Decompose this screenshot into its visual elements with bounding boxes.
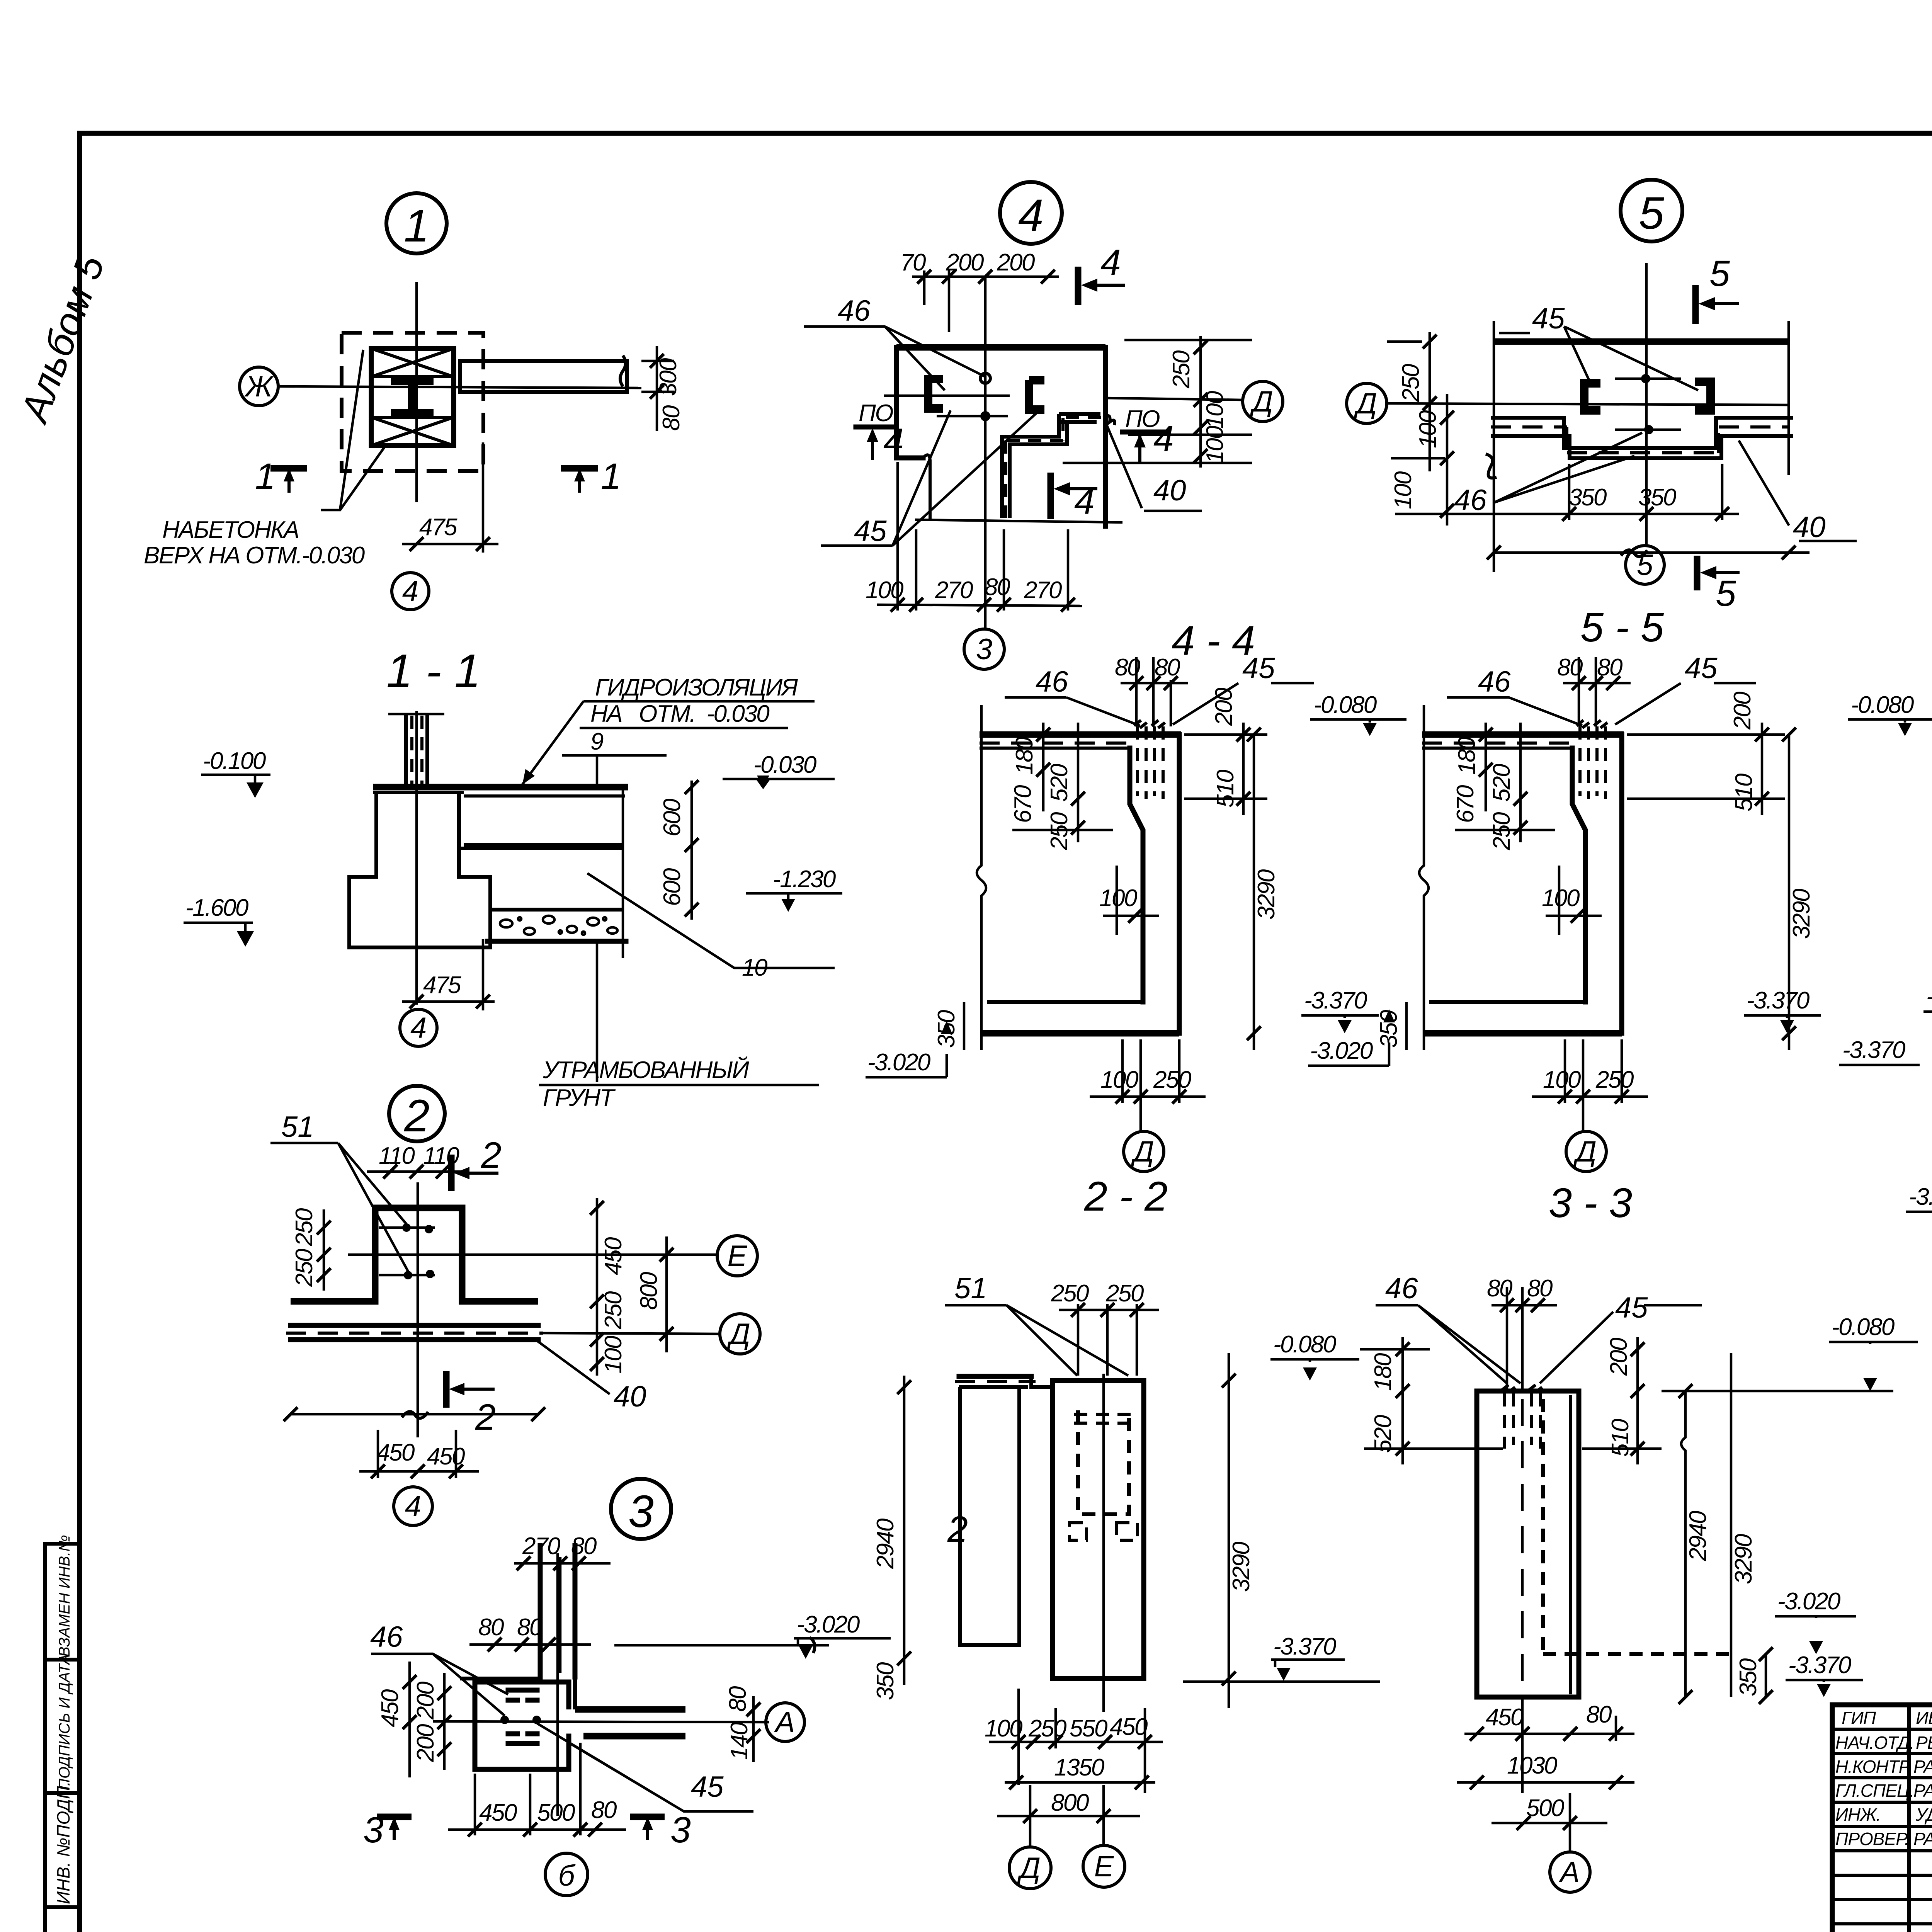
dashed top bolts [1504,1393,1541,1449]
svg-text:НАЧ.ОТД.: НАЧ.ОТД. [1835,1733,1914,1753]
svg-text:ВЕРХ НА ОТМ.-0.030: ВЕРХ НА ОТМ.-0.030 [144,542,365,569]
plan outline top [896,344,1105,351]
svg-text:4: 4 [1018,190,1044,241]
svg-text:НАБЕТОНКА: НАБЕТОНКА [162,517,299,543]
svg-text:УТРАМБОВАННЫЙ: УТРАМБОВАННЫЙ [543,1056,749,1083]
dims right 200 510 [1761,723,1764,815]
leader arrow to slab [522,701,583,784]
svg-text:450: 450 [427,1443,465,1470]
svg-text:Н.КОНТР.: Н.КОНТР. [1835,1757,1912,1777]
svg-text:-0.030: -0.030 [753,752,816,778]
svg-text:б: б [558,1859,576,1892]
svg-text:ГИДРОИЗОЛЯЦИЯ: ГИДРОИЗОЛЯЦИЯ [595,674,798,701]
svg-text:5: 5 [1637,549,1653,582]
svg-text:-0.080: -0.080 [1832,1314,1895,1340]
svg-text:100: 100 [1202,426,1228,464]
svg-text:100: 100 [1390,471,1417,509]
svg-text:250: 250 [600,1291,627,1330]
left C-channel [1584,383,1600,410]
svg-text:46: 46 [1036,665,1068,698]
dims 250 250 left [323,1209,325,1291]
center lines node3 [556,1553,559,1816]
stem inner line [373,791,464,794]
svg-text:-3.020: -3.020 [797,1611,860,1638]
svg-text:-3.370: -3.370 [1304,987,1367,1014]
axis circle 4 below [392,573,429,610]
svg-text:-3.020: -3.020 [1777,1588,1840,1615]
svg-text:2 - 2: 2 - 2 [1084,1173,1168,1219]
dim 3290 tall [1253,735,1255,1050]
svg-text:ИНЖ.: ИНЖ. [1835,1804,1881,1825]
svg-text:3: 3 [363,1810,384,1850]
svg-text:2940: 2940 [872,1519,899,1569]
svg-text:Д: Д [1353,387,1377,420]
anchor bolts [402,1223,411,1232]
svg-text:510: 510 [1607,1419,1634,1457]
svg-text:РАШЕВСКИЙ: РАШЕВСКИЙ [1913,1780,1932,1801]
svg-text:-0.080: -0.080 [1926,983,1932,1010]
svg-text:2: 2 [404,1090,430,1141]
I-beam marks in pad [508,1690,537,1700]
svg-text:4: 4 [1153,418,1174,459]
left C-channel [928,379,943,408]
dims left rotated 180 670 520 250 [1042,723,1045,811]
svg-text:45: 45 [1242,652,1275,685]
svg-text:520: 520 [1370,1415,1396,1453]
center line of column [415,711,418,1005]
node circle 5 [1621,180,1682,241]
svg-text:3290: 3290 [1228,1542,1255,1592]
section flag 5 bottom [1694,556,1701,590]
svg-text:80: 80 [1487,1275,1512,1302]
right C-channel [1029,380,1044,410]
svg-text:51: 51 [954,1272,987,1305]
section mark 3 right [630,1814,665,1820]
left slab strip [959,1374,1031,1379]
svg-text:Д: Д [1130,1135,1154,1168]
svg-text:ИВАНОВА: ИВАНОВА [1916,1708,1932,1728]
svg-text:3: 3 [670,1810,691,1850]
pile rectangle [1053,1381,1144,1679]
signature table labels [1835,1708,1932,1849]
dashed works inside pile [1078,1410,1129,1514]
svg-text:250: 250 [1398,364,1424,402]
svg-text:ГРУНТ: ГРУНТ [543,1085,616,1111]
axis circle Е [1083,1845,1125,1887]
section mark 1 right [561,465,598,472]
dim 2940 [1681,1391,1685,1697]
svg-text:520: 520 [1046,764,1073,802]
svg-text:350: 350 [933,1010,960,1048]
svg-text:200: 200 [946,249,984,276]
left axis line with break [1419,705,1429,1050]
strip top line [291,1323,538,1328]
svg-text:100: 100 [600,1336,627,1374]
long bottom dim with break [1494,551,1810,554]
bolt hatch at top [1577,720,1607,728]
dims right 200 510 [1242,723,1245,815]
svg-text:100: 100 [1415,410,1441,448]
svg-text:450: 450 [1486,1704,1524,1731]
pile rectangle [1477,1391,1579,1697]
svg-text:3290: 3290 [1788,889,1815,939]
svg-text:2: 2 [947,1509,968,1550]
svg-text:180: 180 [1011,737,1038,775]
svg-text:450: 450 [479,1799,517,1826]
svg-text:ИНВ. №ПОДП.: ИНВ. №ПОДП. [53,1781,73,1904]
node circle 1 [386,193,447,253]
center line horizontal axis Ж [277,386,641,388]
svg-text:46: 46 [1385,1272,1418,1305]
section flag 4 top [1075,267,1082,305]
pad square [475,1682,569,1769]
svg-text:-3.020: -3.020 [867,1049,930,1076]
svg-text:РЫБКИНА: РЫБКИНА [1916,1733,1932,1753]
svg-text:350: 350 [872,1662,899,1700]
dim 600 600 right rotated [690,781,693,920]
svg-text:800: 800 [1051,1789,1089,1816]
svg-text:ВЗАМЕН ИНВ.№: ВЗАМЕН ИНВ.№ [56,1535,73,1657]
section mark 2 top [448,1155,455,1191]
svg-text:ПОДПИСЬ И ДАТА: ПОДПИСЬ И ДАТА [56,1654,73,1790]
center dash line [1102,1374,1105,1712]
svg-text:200: 200 [1211,688,1237,726]
svg-text:80: 80 [478,1614,504,1641]
slab bands stepped [1491,418,1793,458]
slab dashed underside [1422,742,1572,745]
top slab thick line [980,731,1181,738]
svg-text:510: 510 [1212,770,1239,808]
node circle 4 [1000,182,1062,244]
svg-text:80: 80 [724,1686,751,1712]
svg-text:80: 80 [1527,1275,1553,1302]
center line [1645,263,1648,546]
steel I-beam [391,381,434,413]
left wall U profile [960,1387,1019,1645]
bolt filled [980,411,990,421]
svg-text:45: 45 [1532,302,1565,335]
axis circle Ж [240,367,278,406]
svg-text:-3.370: -3.370 [1842,1037,1905,1063]
dim 3290 [1228,1353,1230,1708]
svg-text:А: А [774,1706,795,1739]
svg-text:80: 80 [1586,1701,1612,1728]
svg-text:4: 4 [410,1012,427,1044]
section mark 1 left [270,465,307,472]
right C-channel [1695,382,1711,410]
svg-text:5: 5 [1639,188,1664,239]
svg-text:РАШЕВСКИЙ: РАШЕВСКИЙ [1913,1828,1932,1849]
axis circle А [1550,1852,1590,1892]
svg-text:600: 600 [659,799,685,837]
svg-text:3290: 3290 [1730,1534,1757,1584]
svg-text:250: 250 [1105,1280,1144,1307]
svg-text:550: 550 [1070,1715,1107,1742]
floor line inner [1429,1000,1585,1004]
wall outline [1572,735,1622,1033]
column above [404,714,408,786]
node circle 3 [611,1479,671,1539]
svg-text:350: 350 [1376,1010,1402,1048]
foundation stem [349,793,490,947]
axis circle Д [1124,1131,1164,1172]
plan left edge [896,347,923,458]
svg-text:А: А [1559,1856,1580,1889]
svg-text:670: 670 [1452,785,1479,823]
axis circle Д right [1243,381,1283,422]
svg-text:46: 46 [370,1621,403,1653]
floor slab lines right [464,794,625,798]
svg-text:РАШЕВСКИЙ: РАШЕВСКИЙ [1913,1756,1932,1777]
extension lines [1493,321,1495,572]
floor top line [373,784,628,791]
svg-text:80: 80 [658,405,685,431]
dims left rotated [408,1662,411,1777]
cross-hatch top band [371,349,454,377]
svg-text:670: 670 [1010,785,1036,823]
dim 350 left [963,1002,966,1050]
svg-text:1 - 1: 1 - 1 [386,645,481,697]
svg-text:-0.080: -0.080 [1851,692,1914,718]
svg-text:-1.230: -1.230 [773,866,836,893]
svg-text:250: 250 [1046,812,1073,850]
bolt hatch at top [1134,720,1165,728]
svg-text:70: 70 [900,249,926,276]
svg-text:Д: Д [1017,1852,1041,1884]
dim 350 [1765,1654,1767,1697]
plan bottom ground line [915,520,1122,522]
svg-text:510: 510 [1731,774,1757,811]
left margin stamp boxes [45,1535,80,1932]
svg-text:180: 180 [1454,737,1480,775]
axis circle Д [720,1314,760,1354]
pad bolts [500,1716,509,1724]
title block [1832,1704,1932,1932]
inner right line [1569,1395,1572,1694]
svg-text:475: 475 [423,972,461,998]
axis circle А [766,1703,804,1742]
section mark 2 bottom [443,1371,450,1408]
svg-text:800: 800 [636,1272,662,1310]
svg-text:46: 46 [1454,484,1487,517]
svg-text:3: 3 [976,633,992,666]
anchor bolts dashed in wall [1580,726,1605,799]
svg-text:250: 250 [291,1208,318,1247]
dim 3290 tall [1788,735,1791,1050]
svg-text:Д: Д [1573,1135,1597,1168]
svg-text:200: 200 [1729,692,1756,730]
svg-text:Е: Е [1094,1850,1114,1883]
svg-text:500: 500 [537,1799,575,1826]
svg-text:100: 100 [1543,1066,1581,1093]
axis circle 4 [400,1009,437,1046]
svg-text:45: 45 [854,515,887,548]
svg-text:1350: 1350 [1054,1754,1104,1781]
signature table rows [1832,1729,1932,1924]
svg-text:-0.100: -0.100 [203,748,266,774]
svg-text:-3.020: -3.020 [1310,1037,1373,1064]
svg-text:4: 4 [883,421,904,462]
floor line inner [987,1000,1143,1004]
svg-text:40: 40 [1153,474,1186,507]
left axis line with break [977,705,986,1050]
svg-text:5 - 5: 5 - 5 [1580,604,1664,650]
dim 3290 [1730,1353,1733,1697]
svg-text:450: 450 [600,1237,627,1275]
dims right 80 140 [752,1696,755,1762]
dashed pit outline [342,333,483,471]
svg-text:3290: 3290 [1253,869,1280,920]
svg-text:180: 180 [1370,1353,1396,1391]
dims right rotated 250 100 100 [1199,336,1202,468]
footing bottom [981,1030,1179,1037]
svg-text:1: 1 [255,456,276,497]
svg-text:40: 40 [614,1380,646,1413]
center lines [417,1182,419,1437]
dims left rotated 250 100 100 [1429,332,1431,471]
svg-text:1: 1 [404,201,429,252]
right edge break line [622,787,624,958]
svg-text:ПРОВЕР.: ПРОВЕР. [1835,1829,1909,1849]
svg-text:-0.080: -0.080 [1273,1331,1336,1358]
center line [1521,1399,1524,1712]
svg-text:Д: Д [726,1318,750,1350]
dims left rotated 180 670 520 250 [1485,723,1487,811]
svg-text:-3.370: -3.370 [1747,987,1810,1014]
svg-text:350: 350 [1638,484,1676,511]
wall vertical [538,1546,543,1679]
center line vertical [984,278,987,630]
svg-text:НА ОТМ. -0.030: НА ОТМ. -0.030 [590,701,769,727]
svg-text:200: 200 [412,1682,439,1720]
svg-text:100: 100 [985,1715,1022,1742]
svg-text:-3.370: -3.370 [1788,1652,1851,1679]
svg-text:Е: Е [728,1240,748,1272]
dims right 200 510 [1636,1337,1639,1464]
corner detail top [460,1677,575,1709]
svg-text:5: 5 [1709,253,1730,294]
svg-text:1: 1 [601,456,621,497]
axis Д line [1105,398,1242,400]
floor edge line right [614,1644,829,1647]
svg-text:5: 5 [1716,573,1736,614]
dim 2940 left [903,1376,906,1685]
svg-text:250: 250 [1488,812,1515,850]
horizontal wall right [575,1706,685,1713]
node circle 2 [389,1086,445,1141]
svg-text:4: 4 [1074,481,1095,522]
svg-text:45: 45 [691,1770,724,1803]
svg-text:Ж: Ж [244,370,274,403]
svg-text:520: 520 [1488,764,1515,802]
axis Д circle [1347,383,1387,423]
bolts [1641,374,1650,383]
svg-text:45: 45 [1615,1291,1648,1324]
svg-text:500: 500 [1526,1795,1564,1821]
signature table frame [1832,1705,1932,1932]
svg-text:250: 250 [1168,350,1195,389]
svg-text:3: 3 [628,1486,654,1537]
svg-text:100: 100 [1202,391,1228,429]
svg-text:3 - 3: 3 - 3 [1549,1179,1632,1226]
bolt open [980,373,990,383]
bolt axis lines [884,395,1010,397]
lower slab and gravel [490,908,623,912]
svg-text:40: 40 [1793,511,1826,544]
strip dashed centerline [286,1332,543,1335]
axis circle 4 bottom [394,1487,432,1526]
dashed L inside [1541,1399,1545,1654]
svg-text:ГЛ.СПЕЦ.: ГЛ.СПЕЦ. [1835,1781,1914,1801]
svg-text:200: 200 [997,249,1035,276]
svg-text:350: 350 [1735,1658,1762,1696]
section flag 4 bottom [1048,473,1054,519]
top slab thick line [1422,731,1624,738]
svg-text:ГИП: ГИП [1842,1708,1876,1728]
axis circle Д [1009,1847,1051,1889]
wall outline [1130,735,1179,1033]
svg-text:80: 80 [591,1797,617,1823]
svg-text:46: 46 [838,294,871,327]
svg-text:450: 450 [377,1689,403,1727]
dims left 180 520 [1401,1337,1404,1464]
long dim line bottom [291,1413,538,1416]
svg-text:80: 80 [517,1614,543,1641]
svg-text:270: 270 [1024,577,1062,604]
svg-text:-3.020: -3.020 [1909,1184,1932,1210]
svg-text:200: 200 [412,1724,439,1762]
svg-text:4: 4 [1100,242,1121,283]
column block [371,349,454,446]
svg-text:600: 600 [659,868,685,906]
svg-text:100: 100 [1099,885,1137,912]
svg-text:4: 4 [402,575,418,608]
svg-text:475: 475 [419,514,457,541]
dim 800 [665,1236,668,1352]
svg-text:450: 450 [377,1439,415,1466]
anchor bolts dashed in wall [1138,726,1163,799]
svg-text:9: 9 [590,728,604,755]
svg-text:100: 100 [1100,1066,1138,1093]
svg-text:270: 270 [935,577,973,604]
svg-text:450: 450 [1110,1714,1148,1740]
svg-text:80: 80 [985,574,1010,600]
center line vertical [415,282,418,502]
plan right edge [1103,347,1108,526]
bottom circle 5 [1626,546,1664,584]
T foundation plan outline [291,1208,538,1301]
stepped waterproofing wall [1059,414,1100,422]
svg-text:Д: Д [1249,385,1273,418]
svg-text:2: 2 [475,1397,496,1438]
slab dashed underside [980,742,1130,745]
svg-text:УДАЛОВА: УДАЛОВА [1915,1804,1932,1825]
axis circle Д [1566,1131,1606,1172]
axis circle 3 bottom [964,629,1004,669]
leader to набетонка [321,350,386,510]
section mark 3 left [377,1814,412,1820]
axis circle б bottom [545,1853,588,1896]
top wall thick line [1494,338,1789,345]
svg-text:2940: 2940 [1685,1511,1711,1561]
svg-text:140: 140 [726,1722,753,1760]
svg-text:200: 200 [1605,1338,1632,1376]
svg-text:250: 250 [291,1249,318,1287]
axis circle Е [717,1236,757,1276]
svg-text:46: 46 [1478,665,1511,698]
svg-text:2: 2 [481,1135,502,1176]
svg-text:-1.600: -1.600 [185,895,248,921]
